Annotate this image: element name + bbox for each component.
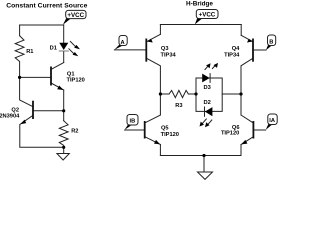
svg-text:Q4: Q4 — [232, 46, 240, 52]
svg-text:D2: D2 — [204, 100, 211, 106]
svg-text:D3: D3 — [204, 85, 211, 91]
svg-text:R2: R2 — [71, 129, 78, 135]
svg-text:TIP120: TIP120 — [161, 132, 179, 138]
svg-text:Q1: Q1 — [67, 71, 75, 77]
svg-text:TIP34: TIP34 — [224, 53, 240, 59]
svg-text:+VCC: +VCC — [67, 12, 84, 19]
svg-text:B: B — [269, 40, 273, 46]
svg-text:D1: D1 — [50, 45, 57, 51]
svg-text:IB: IB — [130, 119, 136, 125]
svg-text:Q3: Q3 — [161, 46, 169, 52]
svg-text:+VCC: +VCC — [199, 11, 216, 18]
svg-text:Q5: Q5 — [161, 126, 169, 132]
svg-text:R1: R1 — [26, 49, 33, 55]
svg-text:R3: R3 — [175, 103, 182, 109]
svg-text:A: A — [121, 40, 125, 46]
svg-text:TIP120: TIP120 — [67, 78, 85, 84]
svg-text:TIP34: TIP34 — [161, 53, 177, 59]
svg-text:2N3904: 2N3904 — [0, 113, 20, 119]
svg-text:Constant Current Source: Constant Current Source — [6, 2, 87, 9]
svg-text:IA: IA — [269, 118, 275, 124]
svg-text:TIP120: TIP120 — [221, 131, 239, 137]
svg-text:H-Bridge: H-Bridge — [186, 1, 213, 8]
